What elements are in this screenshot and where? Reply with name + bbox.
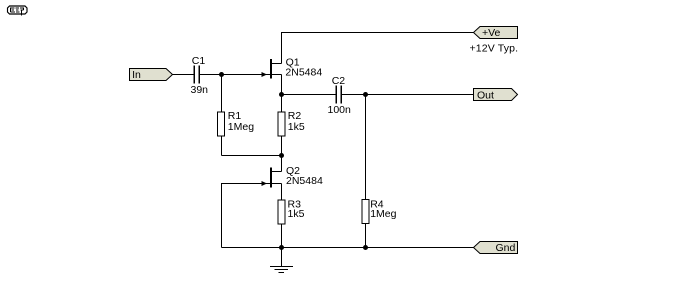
svg-text:2N5484: 2N5484: [285, 67, 322, 79]
svg-text:In: In: [132, 69, 141, 81]
svg-text:1Meg: 1Meg: [370, 208, 396, 220]
svg-text:100n: 100n: [328, 104, 352, 116]
svg-text:Gnd: Gnd: [496, 242, 516, 254]
svg-text:1k5: 1k5: [288, 121, 305, 133]
svg-text:Out: Out: [477, 89, 494, 101]
svg-text:C2: C2: [332, 75, 346, 87]
svg-text:C1: C1: [192, 55, 206, 67]
svg-text:39n: 39n: [191, 84, 209, 96]
svg-text:1Meg: 1Meg: [228, 121, 254, 133]
svg-text:+12V Typ.: +12V Typ.: [470, 43, 519, 55]
svg-text:2N5484: 2N5484: [286, 175, 323, 187]
svg-text:+Ve: +Ve: [482, 27, 501, 39]
svg-text:1k5: 1k5: [288, 208, 305, 220]
